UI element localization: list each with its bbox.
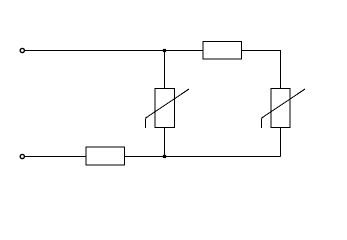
varistor RV1 body xyxy=(155,89,175,128)
resistor R2 (bottom series) xyxy=(86,147,125,165)
varistor RV1 diagonal stroke xyxy=(145,89,189,118)
wire: R2 to right corner via node B xyxy=(125,156,281,158)
wire top: J1 to R1 xyxy=(25,50,204,52)
terminal J1 (top input) xyxy=(20,48,24,52)
varistor RV2 body xyxy=(271,89,290,128)
wire: node A down to RV1 xyxy=(164,51,166,89)
wire: R1 to right corner xyxy=(242,50,282,52)
wire: RV2 bottom lead xyxy=(280,128,282,157)
varistor RV2 diagonal stroke xyxy=(261,89,305,118)
wire: J2 to R2 xyxy=(25,156,87,158)
wire: right vertical down to RV2 xyxy=(280,51,282,89)
terminal J2 (bottom input) xyxy=(20,154,24,158)
resistor R1 (top series) xyxy=(203,42,242,60)
wire: RV1 bottom lead to node B xyxy=(164,128,166,157)
node A junction dot xyxy=(163,49,166,52)
varistor RV2 diagonal tail xyxy=(260,118,262,128)
varistor RV1 diagonal tail xyxy=(144,118,146,128)
node B junction dot xyxy=(163,155,166,158)
